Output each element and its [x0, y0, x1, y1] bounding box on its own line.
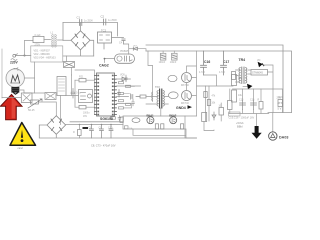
svg-text:0.1u: 0.1u: [76, 92, 81, 95]
svg-text:16V: 16V: [83, 116, 88, 118]
svg-text:C15: C15: [239, 98, 244, 101]
svg-text:SG6105: SG6105: [100, 117, 113, 121]
safety cap Y2: [170, 51, 177, 64]
wire IC left feed: [61, 70, 95, 125]
filter box X2: [33, 34, 44, 47]
resistor cluster right of IC: [119, 75, 135, 109]
wire diode to rail: [138, 49, 146, 51]
symbol DA03: [269, 132, 289, 140]
label small r: [125, 126, 129, 129]
wire thermistor verticals: [67, 56, 72, 75]
wire bridge left: [63, 39, 71, 41]
optocoupler U5: [132, 118, 140, 123]
svg-text:IRF740: IRF740: [181, 84, 190, 87]
diode VD7: [129, 45, 138, 50]
svg-text:4.7uF: 4.7uF: [199, 71, 206, 74]
svg-text:C2: C2: [101, 15, 105, 19]
wire bridge2 frame: [39, 125, 196, 138]
diode VD21: [243, 84, 252, 90]
wire misc right-bottom: [185, 116, 214, 138]
svg-text:C8, C73 - 470uF 16V: C8, C73 - 470uF 16V: [91, 143, 116, 147]
svg-text:VD1 - KBP307: VD1 - KBP307: [34, 49, 51, 52]
bridge rectifier VD1-VD4: [71, 31, 90, 50]
svg-text:C16: C16: [250, 98, 255, 101]
polarity bar: [83, 127, 89, 129]
wire lamp links: [18, 70, 35, 94]
svg-text:C15,C16 - 1000uF 16V: C15,C16 - 1000uF 16V: [229, 116, 255, 119]
varistor box V1: [45, 93, 56, 100]
optocoupler U3b: [169, 92, 179, 99]
svg-text:TC2: TC2: [101, 29, 107, 33]
IC U2 SG6105: [95, 73, 117, 116]
connector X1 box: [57, 77, 66, 96]
wire left vertical: [62, 23, 64, 41]
wire filter row: [25, 40, 34, 55]
wire mid-right verticals: [187, 51, 234, 116]
svg-text:+5Vsb: +5Vsb: [236, 121, 244, 125]
diode VD20: [257, 59, 264, 67]
wire IC right rows: [117, 79, 141, 104]
fuse symbol: [11, 59, 17, 61]
capacitor C16: [199, 51, 210, 75]
wire TR2 links: [146, 92, 168, 116]
warning triangle: [10, 123, 36, 151]
capacitor C1: [77, 16, 94, 26]
svg-text:0.1uF: 0.1uF: [35, 34, 42, 37]
junction dots: [79, 124, 112, 126]
wire TR4 left links: [236, 70, 239, 82]
svg-text:100nF: 100nF: [170, 62, 177, 64]
safety cap Y1: [159, 51, 166, 64]
resistor R21: [75, 76, 95, 82]
capacitor C8: [89, 125, 94, 139]
capacitor C20: [239, 98, 246, 109]
resistor R62: [181, 124, 184, 129]
svg-text:5D-25: 5D-25: [28, 109, 35, 112]
svg-text:GND4: GND4: [176, 106, 186, 110]
resistor R32: [232, 90, 243, 102]
capacitor C2: [101, 15, 118, 26]
inductor L1: [51, 32, 57, 48]
resistor R60: [155, 124, 158, 129]
capacitor C9: [99, 125, 104, 139]
wire bridge right: [90, 40, 94, 56]
wire bridge bottom: [63, 50, 94, 56]
diode VD5: [120, 74, 126, 82]
capacitor C5: [71, 89, 81, 99]
svg-text:4.7uF: 4.7uF: [219, 71, 226, 74]
wire filter links: [44, 39, 63, 42]
svg-text:IRF740: IRF740: [181, 102, 190, 105]
svg-text:TP2: TP2: [155, 85, 160, 89]
svg-text:DA03: DA03: [279, 136, 288, 140]
resistor R33: [232, 72, 236, 80]
resistor R42: [258, 98, 264, 109]
wire DA03 feed: [272, 113, 274, 132]
plug pin L: [13, 54, 31, 57]
thermistor box: [64, 62, 75, 68]
capacitor row mid: [131, 95, 146, 99]
svg-text:VD: VD: [257, 59, 261, 62]
comps below IC: [111, 116, 122, 122]
svg-text:VD3 VD4 - HER103: VD3 VD4 - HER103: [34, 57, 57, 60]
black down arrow: [252, 126, 262, 139]
label GND4: [176, 105, 192, 110]
wire lower-right bus: [229, 89, 269, 126]
wire top AC rail: [63, 23, 118, 37]
transformer TR4: [239, 67, 247, 84]
capacitor C7: [118, 90, 121, 98]
svg-text:1u 250V: 1u 250V: [108, 19, 117, 22]
svg-text:1000u: 1000u: [83, 113, 90, 115]
svg-text:CAG2: CAG2: [99, 63, 109, 67]
capacitor C21: [250, 98, 257, 109]
wire left border: [1, 49, 3, 98]
bus rail main: [66, 122, 123, 125]
svg-text:220V: 220V: [10, 61, 19, 65]
optocoupler U3a: [168, 75, 177, 81]
bridge rectifier VD9-VD12: [47, 116, 66, 135]
transistor VT2 mosfet: [181, 91, 192, 106]
wire NTC row: [2, 62, 56, 116]
wire right join: [268, 112, 292, 114]
svg-text:R21: R21: [79, 76, 84, 79]
svg-text:C17: C17: [223, 60, 229, 64]
resistor R71: [219, 103, 224, 121]
svg-text:STM6045: STM6045: [252, 72, 263, 75]
resistor R31: [232, 75, 243, 86]
svg-text:C1: C1: [77, 16, 81, 20]
startup sub box: [79, 90, 93, 103]
divider network U4: [204, 86, 216, 121]
wire TC2 right: [112, 37, 124, 39]
svg-text:C16: C16: [204, 60, 210, 64]
wire low rails: [123, 116, 197, 138]
resistor R61: [161, 124, 164, 129]
wire rail L2: [146, 51, 292, 113]
capacitor C17: [219, 51, 229, 75]
resistor R41: [277, 96, 283, 106]
thermistor NTC: [28, 99, 42, 112]
capacitor C4: [119, 39, 125, 45]
svg-text:1u 250V: 1u 250V: [84, 20, 93, 23]
svg-text:100nF: 100nF: [159, 62, 166, 64]
svg-text:VD2 - DB4009: VD2 - DB4009: [34, 53, 51, 56]
svg-text:R: R: [258, 98, 260, 101]
diode VD30: [212, 112, 216, 120]
capacitor C10: [108, 125, 113, 139]
resistor R40: [228, 101, 233, 110]
svg-text:TR4: TR4: [239, 58, 246, 62]
label 12V stack: [278, 95, 284, 111]
caption box small: [229, 112, 241, 116]
transistor VT5: [147, 114, 155, 124]
wire TC2 down: [103, 43, 105, 49]
resistor R50: [73, 125, 81, 139]
IC TC2 box: [98, 29, 112, 44]
red arrow: [0, 95, 22, 120]
connector box small: [120, 117, 123, 122]
transistor VT1 mosfet: [181, 73, 192, 88]
resistor R70: [202, 113, 207, 122]
plug pin N: [13, 68, 18, 74]
wire center drop: [148, 51, 153, 92]
svg-text:VD5: VD5: [120, 74, 125, 77]
label +5Vsb: [236, 121, 244, 129]
optocoupler PC817: [104, 44, 135, 63]
svg-text:PC817: PC817: [121, 50, 129, 53]
note box VD list: [31, 46, 63, 62]
svg-text:BBbl: BBbl: [237, 125, 243, 129]
wire rail L1: [146, 45, 283, 113]
wire bridge top: [80, 23, 82, 31]
varistor box V2: [21, 93, 32, 103]
resistor R23: [75, 106, 95, 109]
rectifier box STPS: [251, 70, 268, 76]
wire output rail: [233, 89, 283, 113]
svg-text:2.2k: 2.2k: [277, 96, 282, 99]
wire varistor row: [24, 75, 79, 96]
transformer TR2: [152, 85, 165, 108]
svg-text:care!: care!: [18, 147, 24, 150]
svg-text:5 V: 5 V: [278, 107, 282, 111]
svg-text:R: R: [73, 131, 75, 134]
transistor VT6: [169, 114, 177, 124]
wire TR4 right links: [248, 65, 273, 113]
svg-text:C10: C10: [108, 126, 113, 129]
light bulb: [6, 69, 24, 94]
